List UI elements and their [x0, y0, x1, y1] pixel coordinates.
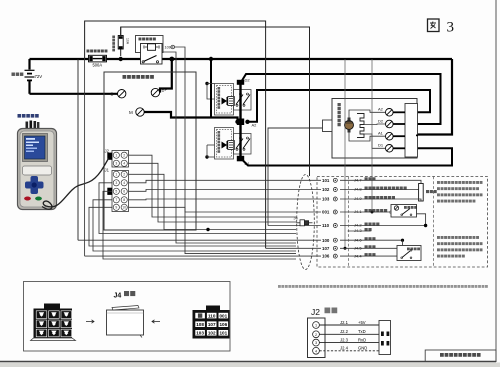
svg-text:1: 1: [315, 324, 317, 328]
svg-text:J4.9: J4.9: [354, 196, 362, 201]
reverse switch label 倒档开关: [407, 248, 410, 251]
svg-text:10: 10: [122, 206, 126, 210]
svg-text:8: 8: [123, 198, 125, 202]
svg-text:J2.1: J2.1: [340, 320, 349, 325]
terminal A2 motor: [386, 109, 394, 117]
svg-text:1: 1: [115, 173, 117, 177]
key switch symbol: [394, 206, 398, 210]
svg-text:2: 2: [315, 333, 317, 337]
svg-text:M: M: [129, 110, 133, 115]
table dashed divider2: [433, 177, 435, 268]
svg-text:5: 5: [115, 190, 117, 194]
svg-text:+5V: +5V: [358, 320, 366, 325]
svg-text:J4.7: J4.7: [354, 178, 362, 183]
light fuse junction dot: [119, 57, 123, 61]
relay K1 box: [141, 44, 163, 65]
contactor bus vertical: [239, 82, 241, 161]
wire right loop down x452 to A1 row: [417, 59, 452, 135]
connector J1 grid: [112, 171, 129, 212]
svg-text:7: 7: [115, 198, 117, 202]
figure label 图 3: [428, 19, 455, 36]
wire J1 left c: [93, 200, 296, 251]
motor temp sensor wire: [268, 128, 323, 226]
coil feed wire lower: [207, 156, 215, 158]
table dashed divider1: [348, 177, 350, 268]
bus blob D2: [237, 80, 244, 85]
J4 plug front view: [44, 304, 60, 310]
svg-text:3: 3: [115, 181, 117, 185]
svg-text:103: 103: [196, 331, 204, 336]
freewheel diode block upper: [215, 84, 235, 116]
svg-text:10A: 10A: [126, 38, 130, 45]
svg-text:TxD: TxD: [358, 329, 366, 334]
contactor upper contacts: [234, 90, 252, 111]
svg-text:9: 9: [115, 206, 117, 210]
svg-text:72V: 72V: [35, 74, 43, 79]
relay K1 coil pins: [145, 46, 148, 48]
signal table rows: [321, 177, 340, 183]
wire A2 node to A2 terminal: [248, 90, 431, 122]
svg-text:3: 3: [447, 20, 455, 36]
motor label 串励直流电机: [338, 103, 341, 106]
wire 100 row: [78, 239, 403, 241]
light fuse stem: [120, 27, 122, 56]
svg-text:A1: A1: [378, 130, 384, 135]
svg-text:J2.3: J2.3: [340, 337, 349, 342]
svg-text:J4.6: J4.6: [354, 237, 362, 242]
svg-text:001: 001: [322, 210, 330, 215]
svg-text:4: 4: [123, 181, 125, 185]
svg-text:A2: A2: [378, 107, 384, 112]
svg-text:4: 4: [315, 349, 317, 353]
svg-text:J4.1: J4.1: [354, 209, 362, 214]
svg-text:103: 103: [322, 197, 330, 202]
B+ branch wire: [160, 59, 172, 93]
freewheel diode block lower: [215, 128, 235, 160]
border frame right: [495, 0, 497, 362]
light fuse F2 body: [118, 36, 123, 50]
svg-text:GND: GND: [358, 346, 367, 351]
battery positive wire top: [30, 58, 453, 60]
connector J2 grid: [112, 151, 129, 168]
svg-text:101: 101: [219, 331, 227, 336]
junction dot M branch: [209, 57, 213, 61]
relay drop x176: [163, 52, 297, 243]
svg-text:107: 107: [322, 246, 330, 251]
junction dot B+ branch: [169, 57, 174, 62]
note paragraph 1: [437, 181, 440, 184]
wire J1 left b: [103, 191, 296, 259]
wire 110 row: [268, 225, 426, 227]
top loop T2: [121, 27, 310, 176]
terminal stubs: [393, 111, 405, 113]
motor internal wires: [349, 110, 385, 118]
title text 三线电阻器式加速器: [440, 353, 444, 357]
svg-text:3: 3: [315, 341, 317, 345]
controller label 直流电机控制器: [123, 75, 127, 79]
svg-text:B-: B-: [111, 92, 116, 97]
J4 plug side view: [107, 310, 144, 335]
svg-text:1: 1: [115, 154, 117, 158]
terminal B-: [118, 90, 126, 98]
programmer P1 body: [18, 121, 57, 210]
reverse switch symbol: [402, 251, 410, 258]
table dashed box: [317, 177, 488, 268]
key switch S1 box: [391, 205, 417, 218]
terminal A1 motor: [386, 132, 394, 140]
svg-text:3: 3: [115, 162, 117, 166]
motor field coil: [357, 114, 364, 138]
motor terminal block: [405, 104, 418, 158]
relay K1 contact: [142, 56, 159, 63]
M wire: [144, 112, 237, 122]
svg-text:J4.8: J4.8: [354, 187, 362, 192]
svg-text:J4.4: J4.4: [354, 253, 362, 258]
vertical drop x372: [371, 59, 373, 212]
svg-text:4: 4: [123, 162, 125, 166]
M feed horizontal: [211, 98, 238, 118]
main fuse label 主回路保险丝: [87, 50, 90, 53]
J4 pin map rear view: [206, 306, 220, 312]
relay K1 coil: [148, 44, 156, 51]
battery left vertical top: [28, 59, 30, 70]
svg-text:J2.2: J2.2: [340, 329, 349, 334]
svg-text:D1: D1: [378, 143, 384, 148]
border frame bottom: [0, 361, 496, 363]
coil feed dots: [205, 82, 208, 85]
wire J2.1 staircase: [129, 155, 296, 217]
wire J1.1 staircase: [129, 174, 296, 229]
svg-text:J2: J2: [311, 307, 320, 317]
terminal B+: [151, 88, 159, 96]
svg-text:101: 101: [322, 178, 330, 183]
wire 103 row: [129, 198, 418, 201]
accelerator R1: [419, 184, 424, 202]
svg-text:106: 106: [219, 322, 227, 327]
footnote line: [278, 285, 281, 288]
relay drop x185: [175, 47, 297, 254]
connector J2 cable pin marker: [107, 153, 112, 160]
battery label 蓄电池: [12, 73, 15, 76]
J2 plug signal lines: [320, 324, 380, 326]
svg-text:D2: D2: [245, 78, 251, 83]
vertical drop x345: [344, 59, 346, 248]
battery B1 symbol: [25, 70, 35, 80]
wire 100 drop to switch: [402, 240, 404, 245]
svg-text:RxD: RxD: [358, 337, 366, 342]
relay K1 label 灯光继电器: [139, 38, 142, 41]
svg-text:500A: 500A: [93, 63, 103, 68]
reverse switch S2 box: [397, 246, 421, 261]
J2 programmer-side connector: [379, 321, 391, 355]
left drop x78: [77, 59, 79, 240]
motor M1 housing: [332, 99, 417, 159]
wire J2.2 staircase: [129, 163, 296, 222]
page bottom shading: [0, 363, 500, 368]
svg-text:6: 6: [123, 190, 125, 194]
wire J1 left d: [89, 207, 296, 246]
svg-text:D2: D2: [378, 118, 384, 123]
wire 106 row: [84, 21, 86, 256]
svg-text:J1: J1: [105, 168, 110, 173]
wire D2 node to D2 terminal: [242, 74, 441, 124]
wire 102 row: [129, 190, 418, 192]
J2 plug connector: [308, 318, 326, 358]
M feed vertical x211: [210, 59, 212, 98]
terminal M: [136, 108, 144, 116]
J4 detail box: [24, 282, 231, 352]
wire D1 node to D1 terminal: [243, 148, 452, 165]
key switch label 钥匙开关: [404, 206, 407, 209]
contactor lower contacts: [234, 134, 252, 155]
battery left vertical bottom: [28, 81, 30, 94]
svg-text:102: 102: [208, 331, 216, 336]
svg-text:110: 110: [322, 223, 330, 228]
programmer cable: [42, 159, 109, 210]
svg-text:102: 102: [322, 187, 330, 192]
svg-text:100: 100: [322, 238, 330, 243]
J4 arrow right: [86, 320, 94, 323]
J4.3 stub line: [348, 230, 371, 232]
light fuse value 10A: [126, 38, 130, 45]
svg-text:109: 109: [165, 46, 171, 50]
wire J1 left a: [99, 183, 296, 234]
harness ellipse: [297, 175, 315, 270]
J2 plug pins: [313, 322, 320, 329]
svg-text:108: 108: [196, 322, 204, 327]
controller U1 box: [104, 72, 196, 230]
top loop T1: [85, 21, 266, 248]
terminal D2 motor: [386, 120, 394, 128]
junction dot staircase: [206, 228, 209, 231]
svg-text:J2.4: J2.4: [340, 346, 349, 351]
svg-text:B+: B+: [162, 88, 168, 93]
title block box: [425, 350, 496, 362]
note paragraph 2: [437, 236, 440, 239]
wire 001 row: [129, 207, 392, 212]
terminal D1 motor: [386, 145, 394, 153]
svg-text:J4.5: J4.5: [354, 246, 362, 251]
main fuse F1 body: [89, 55, 107, 62]
junction dots A2 node: [235, 120, 239, 124]
svg-text:106: 106: [322, 254, 330, 259]
programmer label 掌上编程器: [18, 114, 22, 118]
svg-text:J4.2: J4.2: [354, 223, 362, 228]
svg-text:110: 110: [208, 314, 216, 319]
wire 101 row: [129, 180, 418, 183]
connector J2 pins: [113, 152, 119, 158]
svg-text:107: 107: [208, 322, 216, 327]
accelerator label 加速器: [426, 190, 429, 193]
connector J1 pins: [113, 171, 119, 177]
svg-text:001: 001: [219, 314, 227, 319]
svg-text:A2: A2: [252, 123, 258, 128]
J4 arrow left: [152, 320, 160, 323]
svg-text:2: 2: [123, 173, 125, 177]
light fuse label 灯光保险丝: [112, 36, 115, 39]
coil feed wire upper: [207, 83, 215, 85]
keyswitch drop: [417, 214, 426, 226]
relay K1 outer label box: [136, 36, 164, 53]
bus blob D1: [237, 156, 244, 162]
wire 107 row: [266, 247, 397, 249]
svg-text:2: 2: [123, 154, 125, 158]
motor armature: [345, 121, 354, 130]
svg-text:J4: J4: [114, 293, 122, 300]
battery negative wire to B-: [30, 93, 118, 95]
bus blob A2: [237, 119, 244, 126]
connector J1 pin marker: [107, 188, 112, 195]
